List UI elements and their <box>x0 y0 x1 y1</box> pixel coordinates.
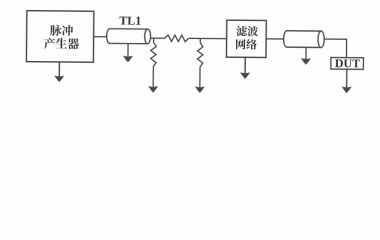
label 脉冲 <box>50 25 62 36</box>
label 滤波 <box>236 26 247 36</box>
DUT box <box>331 57 364 69</box>
ground arrow below DUT <box>346 69 348 87</box>
ground arrow below output line <box>305 47 307 60</box>
label 网络 <box>236 39 246 49</box>
wire TL1 to filter network <box>151 37 166 39</box>
resistor to ground before filter network <box>197 38 203 87</box>
wire output line to DUT <box>324 39 347 58</box>
output transmission line <box>284 31 322 48</box>
series resistor <box>165 35 189 42</box>
ground arrow below TL1 <box>127 44 129 58</box>
label DUT <box>335 59 343 67</box>
filter network box <box>226 20 266 57</box>
pulse generator box <box>26 11 93 63</box>
resistor to ground after TL1 <box>150 38 156 87</box>
ground arrow below resistor 2 <box>195 86 205 93</box>
transmission line TL1 <box>107 29 148 44</box>
wire pulse generator to TL1 <box>94 36 107 38</box>
ground arrow below resistor 1 <box>148 86 158 93</box>
wire filter network to output line <box>266 38 284 40</box>
ground arrow below pulse generator <box>58 62 60 77</box>
label TL1 <box>119 17 127 25</box>
label 产生器 <box>44 38 55 49</box>
ground arrow below filter network <box>244 57 246 74</box>
